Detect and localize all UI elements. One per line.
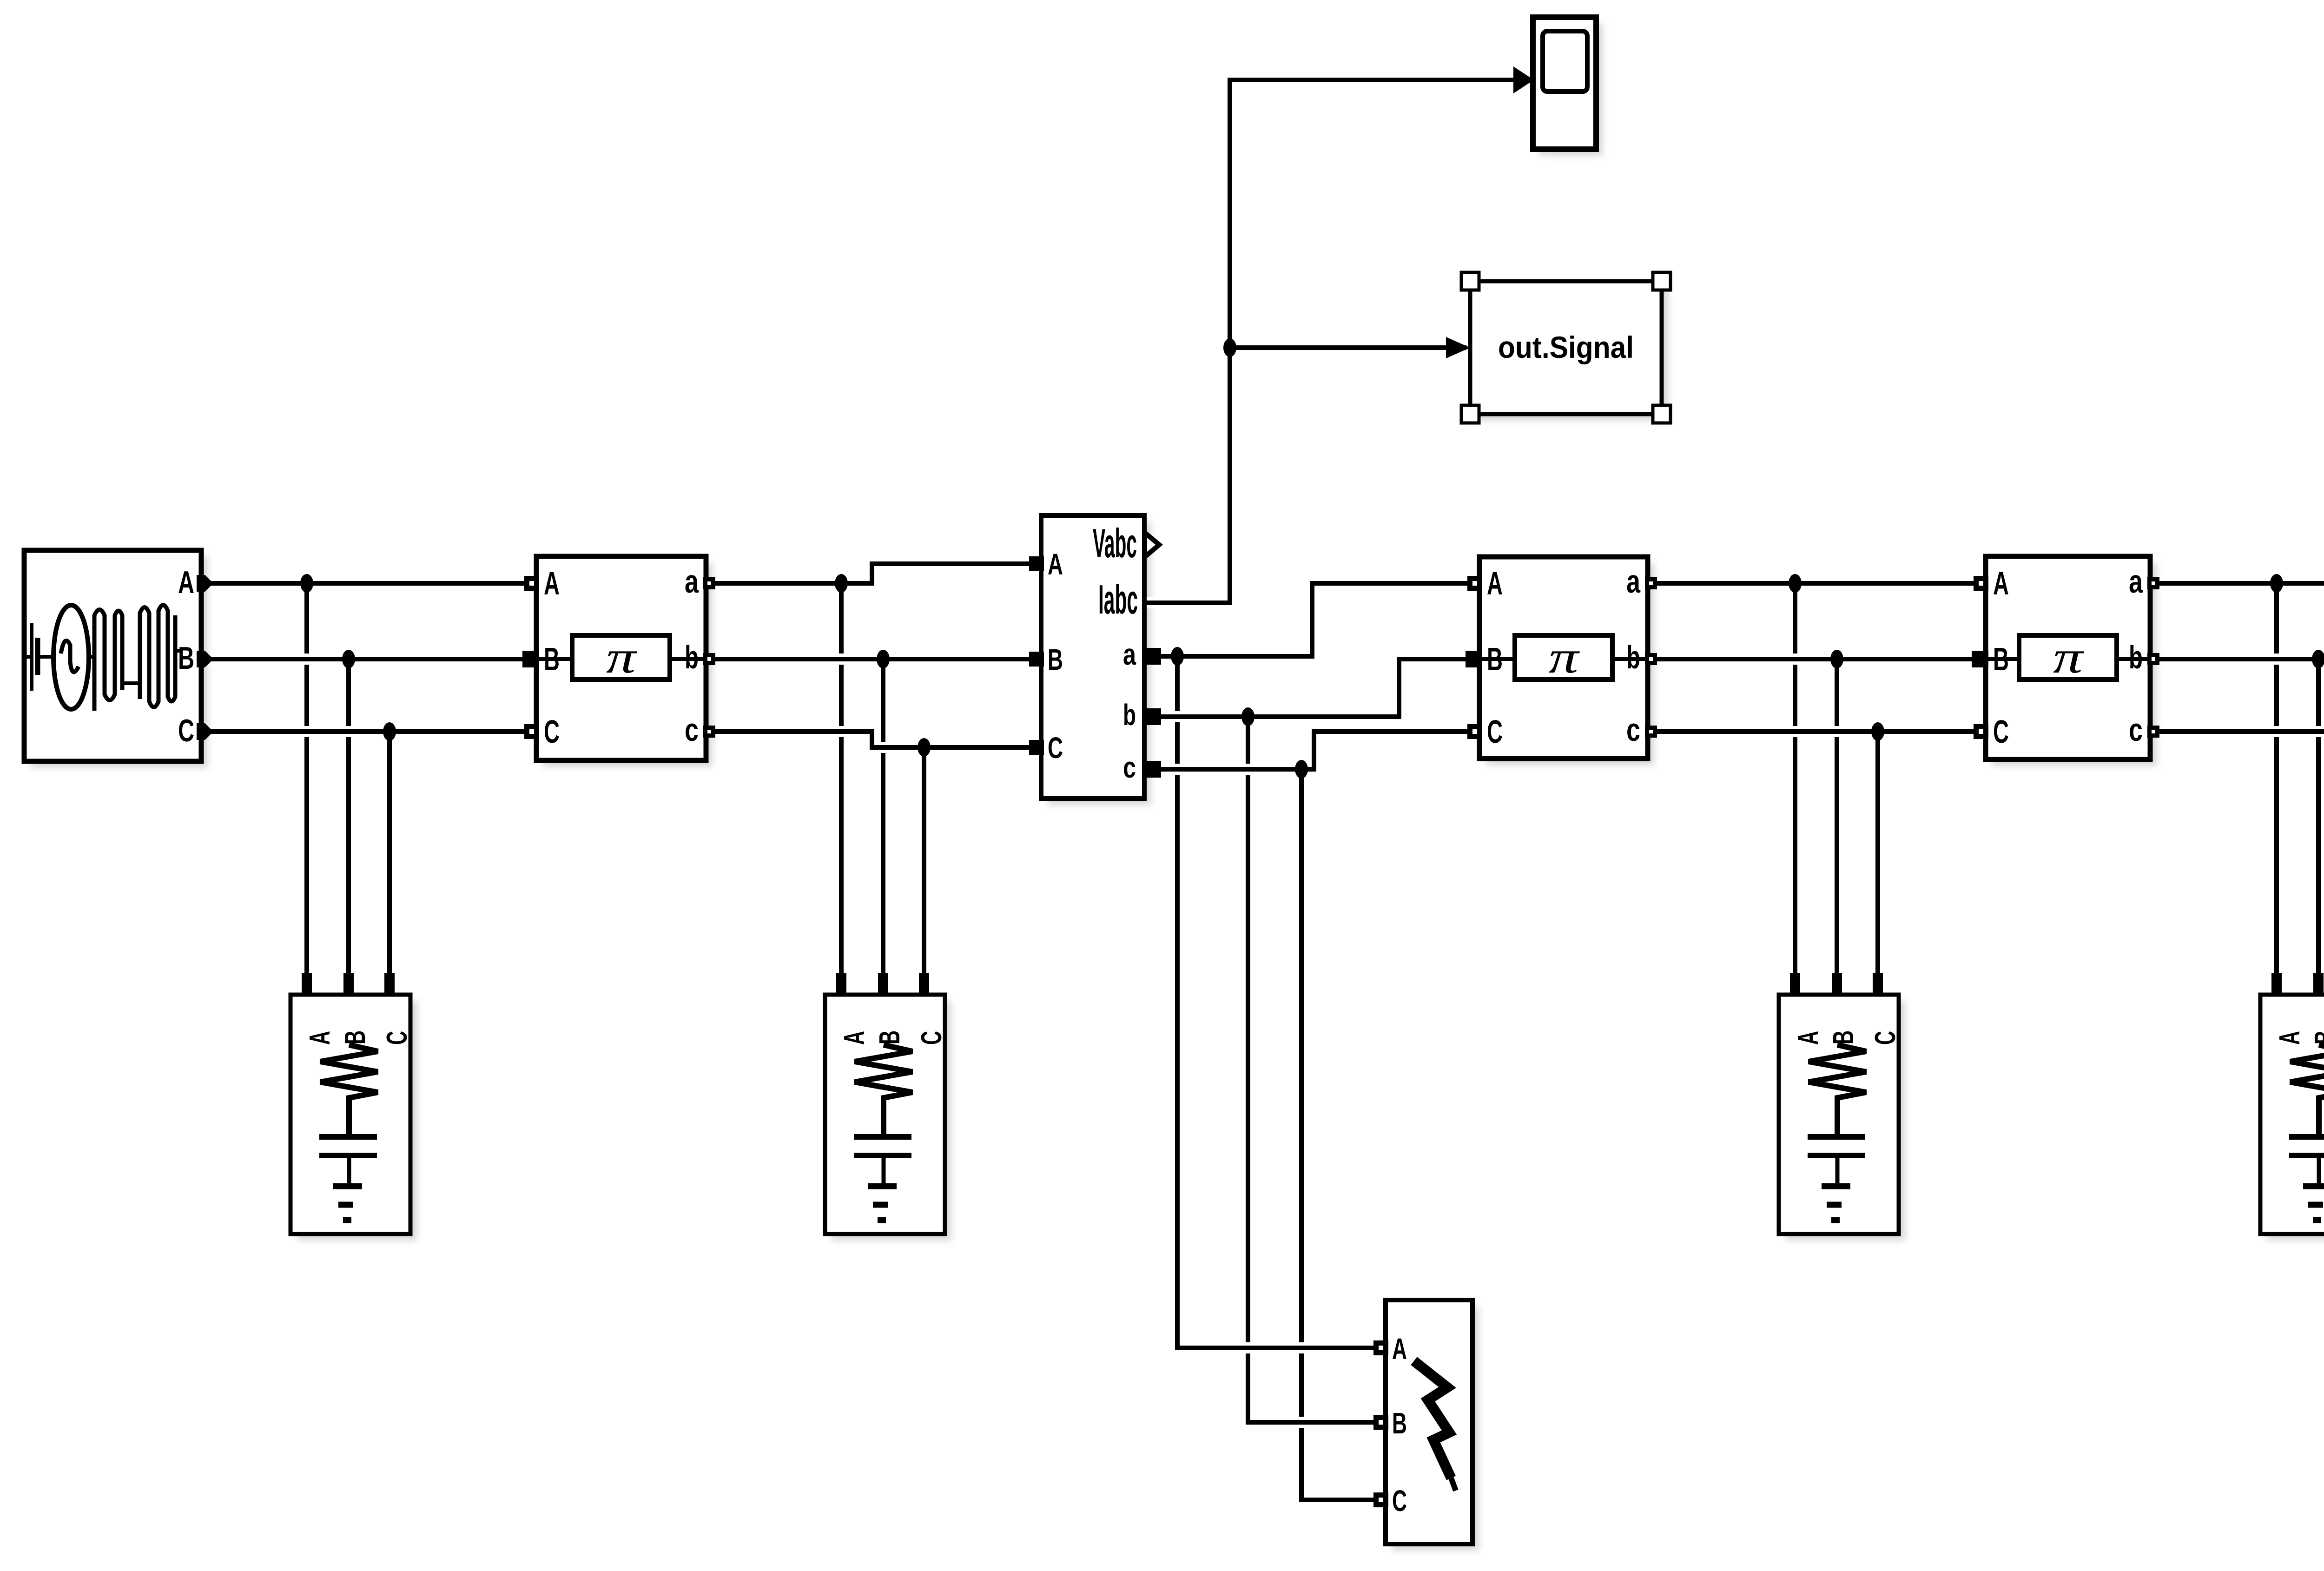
PI section line 1 input port A (524, 576, 539, 591)
wire c measurement to PI line 2 (1144, 732, 1479, 769)
wire drop to load1 phase A (304, 583, 309, 976)
wire fault phase B (1248, 717, 1386, 1422)
wire drop to load2 phase C (922, 747, 926, 976)
PI section line 2 output port b (1645, 653, 1657, 665)
measurement output port c (1144, 761, 1161, 778)
measurement input port B (1029, 652, 1044, 667)
svg-text:a: a (1626, 563, 1641, 600)
wire A PI line 1 to measurement (706, 564, 1041, 583)
svg-text:A: A (838, 1031, 871, 1045)
PI section line 1 (536, 556, 706, 760)
PI section line 3 input port A (1974, 576, 1988, 591)
wire branch to out.Signal (1230, 342, 1466, 353)
svg-text:B: B (339, 1030, 371, 1044)
svg-text:B: B (178, 640, 194, 676)
PI section line 1 output port a (703, 577, 715, 589)
svg-text:c: c (1123, 751, 1136, 784)
wire drop to load2 phase B (881, 659, 885, 976)
wire drop to load4 phase B (2316, 659, 2321, 976)
svg-text:c: c (685, 712, 699, 748)
source 1 port B (197, 651, 213, 667)
measurement Vabc output arrow (1145, 530, 1163, 560)
svg-text:A: A (1487, 565, 1503, 601)
wire Iabc to Scope (1144, 80, 1532, 603)
PI section line 2 output port a (1645, 577, 1657, 589)
svg-text:C: C (381, 1031, 413, 1045)
out.Signal to-workspace block (1461, 272, 1670, 423)
wire C PI line 3 to source2 (2150, 726, 2324, 737)
junction fault-B (1241, 707, 1254, 726)
junction load2-A (835, 574, 848, 593)
svg-text:C: C (1048, 731, 1063, 765)
svg-text:b: b (1626, 639, 1640, 675)
PI section line 1 input port B (522, 651, 539, 667)
wire drop to load4 phase A (2274, 583, 2279, 976)
junction load2-B (877, 650, 890, 668)
fault input port C (1373, 1492, 1388, 1507)
wire B PI line 2 to PI line 3 (1648, 653, 1986, 665)
fault input port B (1373, 1415, 1388, 1430)
wire fault phase C (1301, 769, 1386, 1500)
PI section line 2 input port B (1466, 651, 1482, 667)
svg-text:a: a (1123, 638, 1136, 671)
svg-text:Vabc: Vabc (1093, 520, 1137, 566)
wire C PI line 2 to PI line 3 (1648, 726, 1986, 737)
junction out.Signal branch (1223, 338, 1236, 357)
source 1 port A (197, 575, 213, 592)
svg-text:A: A (544, 565, 560, 601)
svg-text:a: a (2129, 563, 2143, 600)
junction load1-B (342, 650, 355, 668)
fault input port A (1373, 1340, 1388, 1355)
wire B PI line 1 to measurement (706, 653, 1041, 665)
PI section line 1 input port C (524, 724, 539, 739)
wire b measurement to PI line 2 (1144, 659, 1479, 717)
PI section line 3 input port B (1972, 651, 1988, 667)
svg-text:π: π (606, 631, 638, 683)
svg-text:B: B (874, 1030, 906, 1044)
wire fault phase A (1177, 656, 1386, 1348)
PI section line 2 input port A (1467, 576, 1482, 591)
svg-text:A: A (1392, 1332, 1407, 1366)
PI section line 2 (1479, 557, 1648, 759)
wire drop to load2 phase A (839, 583, 844, 976)
three-phase RLC load 2 (825, 973, 948, 1234)
three-phase fault block (1386, 1300, 1472, 1544)
svg-text:π: π (1549, 631, 1580, 683)
svg-text:c: c (1626, 712, 1640, 748)
wire C source1 to PI line 1 (201, 726, 536, 737)
svg-text:A: A (304, 1031, 336, 1045)
wire A PI line 3 to source2 (2150, 578, 2324, 589)
svg-text:b: b (1123, 698, 1136, 732)
wire drop to load3 phase B (1835, 659, 1839, 976)
scope block (1533, 17, 1596, 149)
PI section line 3 output port a (2147, 577, 2159, 589)
wire C PI line 1 to measurement (706, 732, 1041, 747)
svg-text:b: b (685, 639, 699, 675)
svg-text:C: C (1392, 1484, 1407, 1518)
svg-text:C: C (544, 713, 560, 750)
measurement input port C (1029, 740, 1044, 755)
three-phase source 1 (left) (24, 550, 201, 761)
three-phase RLC load 1 (290, 973, 413, 1234)
junction load3-B (1830, 650, 1843, 668)
svg-text:Iabc: Iabc (1098, 576, 1138, 622)
wire drop to load1 phase B (346, 659, 351, 976)
svg-text:A: A (1048, 548, 1063, 581)
measurement output port a (1144, 648, 1161, 665)
svg-text:B: B (1487, 641, 1503, 677)
svg-text:B: B (1828, 1030, 1860, 1044)
PI section line 1 output port c (703, 726, 715, 738)
scope input arrowhead (1513, 66, 1534, 93)
wire drop to load1 phase C (387, 732, 392, 976)
PI section line 2 output port c (1645, 726, 1657, 738)
wire A PI line 2 to PI line 3 (1648, 578, 1986, 589)
wire B PI line 3 to source2 (2150, 653, 2324, 665)
wire a measurement to PI line 2 (1144, 583, 1479, 656)
wire drop to load3 phase C (1875, 732, 1880, 976)
three-phase RLC load 3 (1779, 973, 1901, 1234)
PI section line 1 output port b (703, 653, 715, 665)
junction load1-A (300, 574, 313, 593)
svg-text:π: π (2053, 631, 2085, 683)
svg-text:out.Signal: out.Signal (1498, 330, 1634, 364)
svg-text:B: B (1993, 641, 2009, 677)
svg-text:a: a (685, 563, 699, 600)
svg-text:B: B (1392, 1406, 1407, 1440)
svg-text:C: C (1869, 1031, 1901, 1045)
junction fault-A (1171, 647, 1184, 666)
svg-text:A: A (178, 565, 194, 600)
svg-text:B: B (1048, 643, 1063, 676)
svg-text:B: B (544, 641, 560, 677)
junction fault-C (1295, 760, 1308, 779)
junction load2-C (918, 738, 931, 757)
junction load3-C (1871, 722, 1884, 741)
wire A source1 to PI line 1 (201, 578, 536, 589)
svg-text:A: A (1993, 565, 2009, 601)
svg-text:C: C (178, 713, 194, 748)
wire drop to load3 phase A (1793, 583, 1797, 976)
junction load3-A (1789, 574, 1802, 593)
measurement output port b (1144, 708, 1161, 725)
wire B source1 to PI line 1 (201, 653, 536, 665)
svg-text:C: C (1993, 713, 2009, 750)
source 1 port C (197, 723, 213, 740)
PI section line 3 input port C (1974, 724, 1988, 739)
svg-text:A: A (1792, 1031, 1824, 1045)
three-phase V-I measurement block (1041, 515, 1144, 799)
svg-text:b: b (2129, 639, 2143, 675)
out.Signal input arrowhead (1446, 337, 1470, 358)
PI section line 3 (1986, 556, 2150, 759)
three-phase RLC load 4 (2260, 973, 2324, 1234)
junction load1-C (383, 722, 396, 741)
PI section line 3 output port c (2147, 726, 2159, 738)
PI section line 2 input port C (1467, 724, 1482, 739)
svg-text:C: C (916, 1031, 948, 1045)
junction load4-A (2270, 574, 2283, 593)
svg-text:B: B (2309, 1030, 2324, 1044)
measurement input port A (1029, 556, 1044, 571)
svg-text:A: A (2274, 1031, 2306, 1045)
svg-text:C: C (1487, 713, 1503, 750)
PI section line 3 output port b (2147, 653, 2159, 665)
svg-text:c: c (2129, 712, 2143, 748)
junction load4-B (2312, 650, 2324, 668)
